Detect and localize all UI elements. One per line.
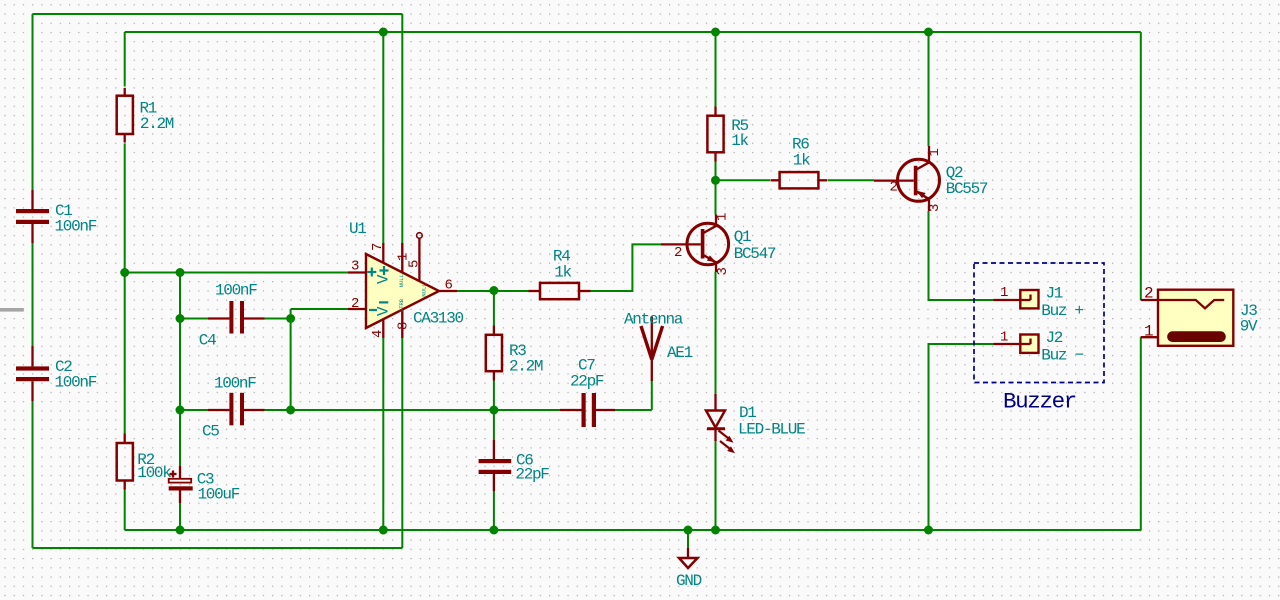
wire Q2 collector to J1 (929, 211, 994, 300)
capacitor C3 (electrolytic) (169, 466, 240, 504)
wire op-amp pin7 branch (382, 32, 384, 244)
wire mid rail C5 to C7 (265, 409, 561, 411)
svg-text:D1: D1 (739, 404, 756, 422)
wire right side of loop (vertical through schematic) (401, 14, 403, 548)
svg-text:100k: 100k (137, 464, 171, 482)
svg-text:1k: 1k (554, 264, 571, 282)
wire antenna stub (651, 380, 653, 410)
wire left edge middle segment (C1 to C2) (32, 243, 34, 346)
junction C4 row / x290 (286, 314, 295, 323)
op-amp body (366, 254, 439, 328)
svg-text:1k: 1k (793, 151, 810, 169)
wire node A vertical x=180 (179, 273, 181, 467)
antenna AE1 (624, 311, 693, 382)
capacitor C7 (560, 357, 615, 428)
junction R1-R2 / pin3 row (120, 268, 129, 277)
ground symbol (676, 548, 702, 590)
op-amp V+ pin name (380, 269, 389, 271)
svg-text:2.2M: 2.2M (509, 357, 543, 375)
svg-text:BC547: BC547 (734, 245, 776, 263)
junction GND rail / J2 branch (924, 526, 933, 535)
svg-text:7: 7 (370, 243, 386, 251)
op-amp input - marker (369, 309, 377, 311)
svg-text:C4: C4 (199, 332, 216, 350)
junction GND rail / op-amp pin4 (379, 526, 388, 535)
LED D1 (706, 394, 805, 453)
junction node A / C4 row (176, 314, 185, 323)
wire node to R6 (716, 179, 771, 181)
wire R4 to Q1 base (591, 244, 662, 291)
wire op-amp output to R4 (457, 290, 529, 292)
svg-text:100nF: 100nF (214, 375, 256, 393)
pin 2 (348, 308, 366, 310)
pin 4 (382, 319, 384, 338)
resistor R1 (117, 88, 174, 143)
wire R5 bottom to node (715, 162, 717, 181)
op-amp V- pin name (379, 301, 388, 303)
svg-text:22pF: 22pF (515, 466, 549, 484)
junction top rail / Q2 emitter (924, 28, 933, 37)
svg-text:100nF: 100nF (55, 374, 97, 392)
svg-text:22pF: 22pF (570, 373, 604, 391)
capacitor C2 (16, 346, 97, 401)
wire R3 bottom (493, 381, 495, 411)
svg-text:1: 1 (715, 213, 731, 221)
svg-text:100nF: 100nF (55, 218, 97, 236)
wire R5 top (715, 32, 717, 107)
wire op-amp pin2 row (291, 308, 348, 310)
wire op-amp pin3 row (125, 272, 348, 274)
junction GND rail / GND stub (684, 526, 693, 535)
op-amp U1 CA3130 (348, 220, 464, 338)
svg-text:2: 2 (890, 180, 898, 196)
svg-text:1k: 1k (731, 132, 748, 150)
capacitor C4 (199, 282, 265, 350)
svg-text:9V: 9V (1240, 318, 1258, 336)
wire vertical x=290 (290, 309, 292, 410)
junction top rail / pin7 branch (379, 28, 388, 37)
wire right rail lower (J3 pin1 to GND rail) (1140, 337, 1142, 530)
op-amp input + marker (367, 271, 376, 273)
svg-text:C5: C5 (202, 423, 219, 441)
svg-text:STRB: STRB (398, 298, 405, 312)
svg-text:Antenna: Antenna (624, 311, 684, 329)
svg-text:Buz −: Buz − (1041, 347, 1083, 365)
wire V+ top rail (125, 31, 1141, 33)
wire C6 bottom (493, 491, 495, 530)
svg-text:2: 2 (1144, 285, 1153, 303)
wire left edge upper segment (32, 14, 34, 190)
svg-text:8: 8 (396, 322, 412, 330)
pin 8 (401, 310, 403, 338)
wire bottom loop rail (33, 547, 403, 549)
junction R3 / mid rail (489, 406, 498, 415)
wire node to Q1 collector (715, 180, 717, 214)
svg-text:3: 3 (715, 267, 731, 275)
svg-text:2: 2 (351, 296, 359, 312)
svg-text:NULL: NULL (421, 283, 428, 296)
svg-text:AE1: AE1 (667, 344, 693, 362)
wire mid rail C7 to antenna (615, 409, 652, 411)
svg-text:Buzzer: Buzzer (1003, 389, 1076, 415)
svg-text:1: 1 (1000, 285, 1008, 301)
svg-text:J1: J1 (1046, 285, 1063, 303)
wire C6 top (493, 410, 495, 440)
svg-text:NULL: NULL (398, 274, 405, 287)
junction GND rail / C6 (489, 526, 498, 535)
wire R3 top (493, 291, 495, 326)
junction GND rail / C3 (176, 526, 185, 535)
svg-text:GND: GND (676, 572, 702, 590)
wire top loop rail (33, 13, 403, 15)
svg-text:4: 4 (370, 330, 386, 338)
resistor R2 (117, 434, 172, 490)
window edge artifact (0, 308, 24, 312)
svg-text:1: 1 (1144, 323, 1153, 341)
resistor R4 (529, 248, 591, 300)
buzzer annotation box (974, 263, 1104, 383)
svg-text:1: 1 (1000, 330, 1008, 346)
capacitor C6 (479, 440, 550, 491)
pin 7 (382, 243, 384, 263)
svg-text:BC557: BC557 (946, 180, 988, 198)
pin 1 (401, 243, 403, 272)
wire R2 bottom (124, 490, 126, 531)
resistor R5 (707, 107, 748, 162)
svg-text:U1: U1 (349, 220, 366, 238)
wire op-amp pin4 to GND rail (382, 338, 384, 530)
resistor R3 (486, 326, 543, 381)
transistor Q2 BC557 (874, 146, 988, 212)
svg-text:J2: J2 (1046, 329, 1063, 347)
wire Q2 emitter to top rail (928, 32, 930, 146)
wire Q1 emitter to LED (715, 272, 717, 394)
pin 6 (output) (439, 290, 457, 292)
junction top rail / R5 (711, 28, 720, 37)
wire C4 right (265, 318, 291, 320)
junction x290 / mid rail (286, 406, 295, 415)
junction pin3 row / node A (176, 268, 185, 277)
wire C4 left (180, 318, 208, 320)
transistor Q1 BC547 (661, 213, 776, 276)
wire R1 top (124, 32, 126, 87)
pin 3 (348, 271, 366, 273)
svg-text:Q1: Q1 (734, 228, 751, 246)
svg-text:2: 2 (674, 245, 682, 261)
wire right rail upper (to J3 pin2) (1140, 32, 1142, 300)
capacitor C5 (202, 375, 265, 441)
svg-text:LED-BLUE: LED-BLUE (738, 421, 805, 439)
svg-text:2.2M: 2.2M (140, 115, 174, 133)
junction GND rail / LED (711, 526, 720, 535)
capacitor C1 (16, 190, 97, 243)
wire C3 bottom (179, 503, 181, 530)
wire GND stub (687, 530, 689, 548)
svg-text:1: 1 (927, 148, 943, 156)
svg-text:CA3130: CA3130 (413, 310, 464, 328)
svg-text:5: 5 (407, 260, 423, 268)
junction R5 / R6 / Q1 collector (711, 176, 720, 185)
svg-text:3: 3 (927, 204, 943, 212)
svg-text:6: 6 (445, 278, 453, 294)
junction output row / R3 (489, 286, 498, 295)
junction node A / mid rail (176, 406, 185, 415)
wire C5 mid rail left (180, 409, 208, 411)
connector J2 (994, 329, 1084, 365)
wire LED to GND rail (715, 441, 717, 530)
svg-text:1: 1 (396, 253, 412, 261)
resistor R6 (771, 135, 828, 188)
svg-text:100nF: 100nF (215, 282, 257, 300)
svg-text:100uF: 100uF (198, 486, 240, 504)
wire R6 to Q2 base (828, 179, 875, 181)
wire J2 to GND rail (929, 344, 994, 530)
svg-text:Buz +: Buz + (1041, 302, 1083, 320)
wire left edge lower segment (32, 401, 34, 548)
wire R1 to R2 (124, 144, 126, 434)
connector J1 (994, 285, 1084, 321)
battery J3 (1141, 285, 1258, 346)
pin 5 (418, 239, 420, 282)
svg-text:3: 3 (351, 259, 359, 275)
wire GND bottom rail (125, 529, 1142, 531)
